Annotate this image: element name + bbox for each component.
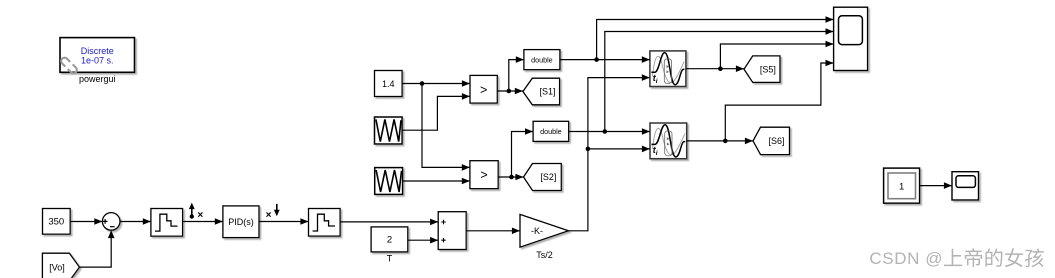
wire rel2 to S2 <box>498 174 523 181</box>
wire gain to SH1 ti <box>569 74 650 231</box>
svg-text:double: double <box>540 127 562 136</box>
svg-text:2: 2 <box>387 235 392 246</box>
wire 1.4 to rel1 <box>402 80 470 87</box>
svg-text:T: T <box>387 254 393 264</box>
wire double1 to SH1 <box>560 56 650 63</box>
wire 2 to add <box>408 237 438 244</box>
sample-hold block 2 <box>650 123 687 159</box>
wire SH1 to S5 <box>686 65 744 72</box>
svg-text:1e-07 s.: 1e-07 s. <box>81 55 114 65</box>
wire rel1 to S1 <box>497 88 523 95</box>
junction 1.4 <box>420 81 425 86</box>
wire SH2 branch to scope in4 <box>725 60 833 141</box>
relational operator 1 <box>470 75 497 103</box>
sum junction <box>102 213 120 231</box>
wire 1.4 branch to rel2 <box>422 84 470 171</box>
Goto tag [S2] <box>524 164 562 191</box>
relational operator 2 <box>470 161 498 189</box>
svg-text:1.4: 1.4 <box>382 79 395 89</box>
constant 2 <box>371 227 408 252</box>
constant 350 <box>43 209 71 235</box>
triangle generator 2 <box>375 168 403 195</box>
Goto tag [S5] <box>744 56 780 83</box>
svg-text:Ts/2: Ts/2 <box>536 250 553 260</box>
constant 1 double-border <box>884 168 920 203</box>
scope 2 <box>952 172 979 200</box>
junction double1 <box>594 57 599 62</box>
wire const1 to scope2 <box>920 182 952 189</box>
wire double2 to SH2 <box>569 128 650 135</box>
svg-text:PID(s): PID(s) <box>228 217 254 227</box>
rate limiter block 2 <box>309 209 341 237</box>
svg-text:double: double <box>531 55 553 64</box>
svg-text:[S1]: [S1] <box>539 87 555 97</box>
junction rel1 <box>507 89 512 94</box>
svg-text:-K-: -K- <box>531 226 543 236</box>
wire double1 branch to scope in1 <box>597 16 834 59</box>
svg-text:×: × <box>197 210 203 221</box>
junction SH2 out <box>723 139 728 144</box>
annotation up-arrow x <box>189 203 203 221</box>
annotation x down-arrow <box>266 204 280 221</box>
Goto tag [S1] <box>523 78 560 105</box>
wire sum to rate1 <box>120 218 151 225</box>
junction double2 <box>603 129 608 134</box>
add block <box>438 212 466 250</box>
wire 350 to sum <box>70 218 102 225</box>
svg-text:[Vo]: [Vo] <box>49 262 65 272</box>
wire rel2 branch to double2 <box>512 128 534 177</box>
svg-text:>: > <box>480 83 487 97</box>
wire PID to rate2 <box>259 218 308 225</box>
wire rate2 to add <box>340 219 438 226</box>
data type conversion double 2 <box>533 121 569 141</box>
svg-text:350: 350 <box>48 217 64 228</box>
watermark CSDN <box>869 248 1043 268</box>
wire double2 branch to scope in2 <box>605 28 834 131</box>
sample-hold block 1 <box>650 51 686 87</box>
svg-text:[S6]: [S6] <box>768 136 784 146</box>
rate limiter block 1 <box>151 209 183 237</box>
powergui label <box>79 74 116 84</box>
wire rate1 to PID <box>183 218 223 225</box>
junction SH1 out <box>718 66 723 71</box>
junction rel2 <box>509 175 514 180</box>
triangle generator 1 <box>375 117 403 144</box>
Goto tag [S6] <box>753 127 790 154</box>
svg-text:CSDN @: CSDN @ <box>869 249 943 268</box>
svg-text:[S2]: [S2] <box>540 172 556 182</box>
data type conversion double 1 <box>524 50 560 70</box>
svg-text:[S5]: [S5] <box>760 64 776 74</box>
svg-text:1: 1 <box>899 182 904 193</box>
wire SH1 branch to scope in3 <box>720 41 833 69</box>
label T <box>387 254 393 264</box>
scope <box>834 7 868 70</box>
wire tri1 to rel1 <box>402 93 470 130</box>
wire add to gain <box>466 228 520 235</box>
wire tri2 to rel2 <box>403 178 470 185</box>
wire rel1 branch to double1 <box>509 56 524 91</box>
gain -K- <box>520 214 569 247</box>
wire ti branch to SH2 <box>588 146 650 153</box>
svg-text:×: × <box>266 210 272 221</box>
junction gain ti <box>586 147 591 152</box>
svg-text:powergui: powergui <box>79 74 116 84</box>
label Ts/2 <box>536 250 553 260</box>
wire SH2 to S6 <box>687 138 753 145</box>
From tag [Vo] <box>42 253 79 278</box>
wire Vo to sum <box>80 230 115 267</box>
powergui block <box>60 38 135 75</box>
PID controller <box>223 206 259 238</box>
svg-text:>: > <box>480 168 487 182</box>
constant 1.4 <box>375 71 403 97</box>
